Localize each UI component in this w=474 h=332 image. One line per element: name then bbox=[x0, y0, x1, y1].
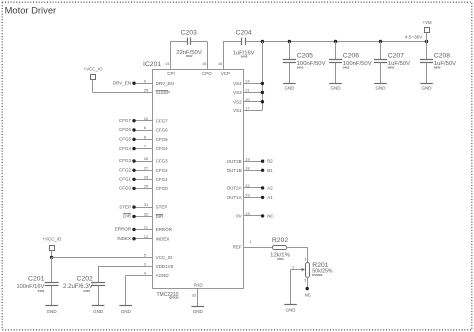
svg-text:B2: B2 bbox=[267, 159, 273, 164]
svg-text:13: 13 bbox=[245, 211, 250, 216]
svg-text:VS1: VS1 bbox=[233, 108, 242, 113]
svg-text:0402: 0402 bbox=[38, 289, 45, 293]
svg-text:16: 16 bbox=[218, 61, 223, 66]
svg-text:+VM: +VM bbox=[423, 20, 432, 25]
svg-text:0402: 0402 bbox=[83, 289, 90, 293]
svg-text:EVM3E: EVM3E bbox=[312, 273, 322, 277]
svg-text:CFG2: CFG2 bbox=[156, 168, 168, 173]
svg-text:CFG1: CFG1 bbox=[119, 177, 131, 182]
svg-text:CFG4: CFG4 bbox=[119, 146, 131, 151]
svg-text:VS2: VS2 bbox=[233, 99, 242, 104]
svg-text:DRV_EN: DRV_EN bbox=[113, 80, 131, 85]
svg-text:CFG3: CFG3 bbox=[156, 159, 168, 164]
svg-text:25: 25 bbox=[144, 88, 149, 93]
svg-text:28: 28 bbox=[144, 174, 149, 179]
svg-text:CFG0: CFG0 bbox=[119, 186, 131, 191]
svg-text:CPO: CPO bbox=[202, 71, 212, 76]
svg-text:CFG6: CFG6 bbox=[156, 128, 168, 133]
svg-text:C204: C204 bbox=[235, 29, 251, 36]
svg-text:B1: B1 bbox=[267, 168, 273, 173]
svg-text:STEP: STEP bbox=[156, 205, 168, 210]
svg-text:CFG4: CFG4 bbox=[156, 146, 168, 151]
svg-text:NC: NC bbox=[305, 293, 312, 298]
svg-text:OUT1B: OUT1B bbox=[227, 168, 242, 173]
svg-text:NC: NC bbox=[267, 213, 274, 218]
svg-text:CFG2: CFG2 bbox=[119, 168, 131, 173]
svg-text:ERROR: ERROR bbox=[115, 227, 132, 232]
svg-text:INDEX: INDEX bbox=[156, 236, 170, 241]
svg-text:12: 12 bbox=[144, 234, 149, 239]
svg-text:CFG1: CFG1 bbox=[156, 177, 168, 182]
svg-text:A2: A2 bbox=[267, 185, 273, 190]
svg-text:0402: 0402 bbox=[297, 66, 304, 70]
svg-text:OUT1A: OUT1A bbox=[227, 195, 242, 200]
svg-text:GND: GND bbox=[286, 308, 297, 313]
svg-text:REF: REF bbox=[233, 245, 242, 250]
svg-text:CPI: CPI bbox=[167, 71, 175, 76]
svg-text:29: 29 bbox=[144, 184, 149, 189]
svg-text:14: 14 bbox=[165, 61, 170, 66]
svg-text:C208: C208 bbox=[434, 53, 450, 60]
svg-text:AGND: AGND bbox=[156, 273, 170, 278]
svg-text:CFG0: CFG0 bbox=[156, 186, 168, 191]
svg-text:A1: A1 bbox=[267, 195, 273, 200]
svg-text:CFG5: CFG5 bbox=[119, 137, 131, 142]
svg-text:22: 22 bbox=[245, 183, 250, 188]
svg-text:0603: 0603 bbox=[388, 66, 395, 70]
svg-text:0402: 0402 bbox=[343, 66, 350, 70]
svg-text:PAD: PAD bbox=[194, 282, 204, 287]
svg-text:0402: 0402 bbox=[186, 54, 193, 58]
svg-text:GND: GND bbox=[331, 86, 342, 91]
svg-text:0805: 0805 bbox=[434, 66, 441, 70]
svg-text:24: 24 bbox=[245, 79, 250, 84]
svg-text:21: 21 bbox=[245, 88, 250, 93]
svg-text:+VCC_IO: +VCC_IO bbox=[84, 67, 103, 72]
svg-text:+VCC_IO: +VCC_IO bbox=[43, 237, 62, 242]
svg-text:GND: GND bbox=[376, 86, 387, 91]
svg-text:27: 27 bbox=[144, 165, 149, 170]
svg-text:26: 26 bbox=[144, 156, 149, 161]
svg-text:GND: GND bbox=[93, 309, 104, 314]
svg-text:GND: GND bbox=[121, 309, 132, 314]
svg-text:VDD1V8: VDD1V8 bbox=[156, 264, 174, 269]
svg-text:C203: C203 bbox=[181, 29, 197, 36]
svg-text:31: 31 bbox=[144, 202, 149, 207]
svg-text:0402: 0402 bbox=[241, 55, 248, 59]
svg-text:R202: R202 bbox=[272, 237, 288, 244]
svg-text:Motor Driver: Motor Driver bbox=[5, 5, 57, 16]
svg-text:STEP: STEP bbox=[119, 204, 131, 209]
svg-text:GND: GND bbox=[284, 86, 295, 91]
svg-text:IC201: IC201 bbox=[143, 61, 161, 68]
svg-text:ERROR: ERROR bbox=[156, 227, 173, 232]
svg-text:DRV_EN: DRV_EN bbox=[156, 81, 174, 86]
svg-text:GND: GND bbox=[193, 309, 204, 314]
svg-text:CFG7: CFG7 bbox=[156, 118, 168, 123]
svg-text:CFG5: CFG5 bbox=[156, 137, 168, 142]
svg-text:33: 33 bbox=[191, 293, 196, 298]
svg-text:10: 10 bbox=[144, 116, 149, 121]
svg-text:0402: 0402 bbox=[277, 257, 284, 261]
svg-text:CFG7: CFG7 bbox=[119, 118, 131, 123]
svg-text:CFG6: CFG6 bbox=[119, 127, 131, 132]
svg-text:19: 19 bbox=[245, 156, 250, 161]
svg-text:17: 17 bbox=[245, 105, 250, 110]
svg-text:GND: GND bbox=[422, 86, 433, 91]
svg-text:VCP: VCP bbox=[221, 71, 230, 76]
svg-text:20: 20 bbox=[245, 97, 250, 102]
svg-text:C207: C207 bbox=[388, 53, 404, 60]
svg-text:32: 32 bbox=[144, 212, 149, 217]
svg-text:CFG3: CFG3 bbox=[119, 158, 131, 163]
svg-text:VCC_IO: VCC_IO bbox=[156, 255, 173, 260]
svg-text:15: 15 bbox=[202, 61, 207, 66]
svg-text:GND: GND bbox=[47, 309, 58, 314]
svg-text:VS3: VS3 bbox=[233, 90, 242, 95]
svg-text:QFN32: QFN32 bbox=[169, 296, 179, 300]
svg-text:0V: 0V bbox=[236, 214, 242, 219]
svg-text:23: 23 bbox=[245, 193, 250, 198]
svg-text:INDEX: INDEX bbox=[117, 236, 131, 241]
svg-text:VS4: VS4 bbox=[233, 81, 242, 86]
svg-text:C202: C202 bbox=[77, 276, 93, 283]
svg-text:4.5~36V: 4.5~36V bbox=[405, 34, 423, 39]
svg-text:OUT2B: OUT2B bbox=[227, 159, 242, 164]
svg-text:C206: C206 bbox=[343, 53, 359, 60]
svg-text:DIR: DIR bbox=[123, 214, 132, 219]
svg-text:18: 18 bbox=[245, 165, 250, 170]
svg-text:C205: C205 bbox=[297, 53, 313, 60]
svg-text:C201: C201 bbox=[28, 276, 44, 283]
svg-text:OUT2A: OUT2A bbox=[227, 186, 242, 191]
